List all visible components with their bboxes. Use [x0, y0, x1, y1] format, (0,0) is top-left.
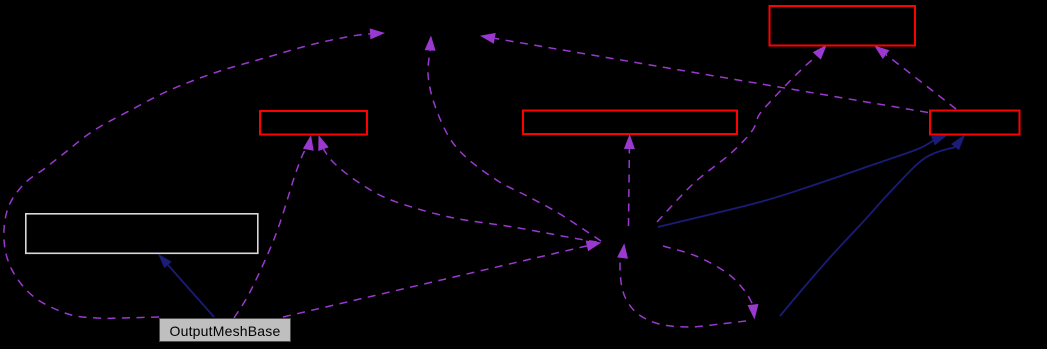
edge hub node to top-right red box (dashed curve): [657, 45, 827, 222]
edge hub node to left red box (dashed curve): [318, 135, 597, 242]
edge hub node to node C (dashed curve upper): [663, 246, 759, 320]
edge hub node to node A (dashed curve): [425, 36, 601, 242]
edge right red box to top-right red box (dashed): [874, 46, 956, 110]
wire edge OutputMeshBase to node A (dashed curve around left side): [4, 28, 385, 318]
svg-text:OutputMeshBase: OutputMeshBase: [170, 323, 281, 339]
top-right red box node: [770, 6, 916, 46]
left red box node: [260, 111, 367, 135]
edge node C to hub node (dashed curve lower): [617, 243, 746, 327]
center red box node: [523, 111, 737, 135]
edge OutputMeshBase to white box (solid navy inheritance): [158, 254, 214, 317]
edge OutputMeshBase to hub node (dashed): [283, 241, 602, 318]
right red box node: [930, 111, 1020, 135]
edge OutputMeshBase to left red box (dashed): [234, 135, 314, 318]
edge hub node to right red box (solid navy): [658, 134, 949, 227]
edge node C to right red box (solid navy): [780, 134, 966, 316]
edge right red box to node A (dashed): [480, 33, 928, 113]
edge hub node to center red box (dashed vertical): [624, 134, 635, 226]
white box node: [26, 214, 258, 254]
node OutputMeshBase: [160, 319, 291, 342]
